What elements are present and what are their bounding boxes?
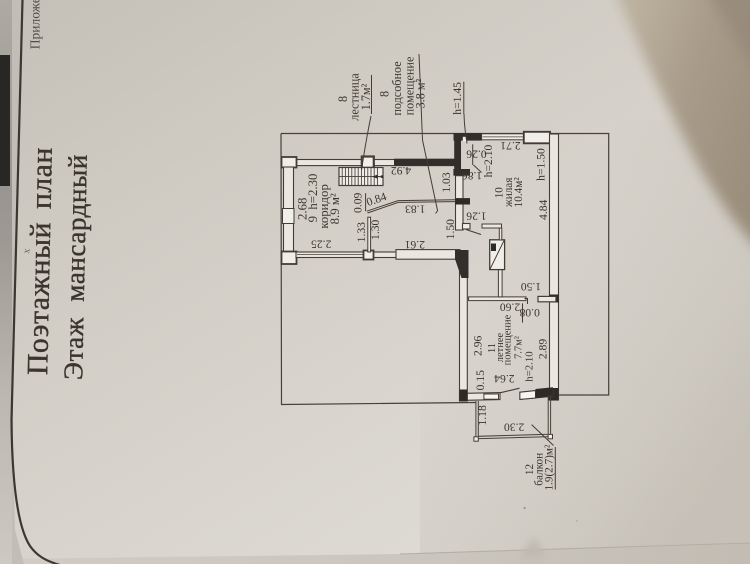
svg-text:1.30: 1.30 [369,219,382,239]
svg-text:2.25: 2.25 [311,237,331,250]
svg-text:8.9 м²: 8.9 м² [328,193,342,224]
svg-text:10.4м²: 10.4м² [513,177,525,208]
svg-text:1.50: 1.50 [444,219,457,239]
svg-text:1.26: 1.26 [466,210,486,223]
svg-text:2.96: 2.96 [471,335,484,355]
svg-text:2.60: 2.60 [500,300,520,313]
svg-text:1.50: 1.50 [521,280,541,293]
svg-text:2.64: 2.64 [494,372,514,385]
svg-text:h=1.45: h=1.45 [451,82,464,115]
svg-text:2.61: 2.61 [404,238,424,251]
svg-text:1.9(2.7)м²: 1.9(2.7)м² [544,444,556,490]
svg-text:1.83: 1.83 [405,203,425,216]
svg-text:0.26: 0.26 [466,148,486,161]
svg-text:2.71: 2.71 [500,139,520,152]
svg-text:0.15: 0.15 [474,370,487,390]
svg-text:0.09: 0.09 [352,192,365,212]
svg-text:Поэтажный план: Поэтажный план [22,147,59,376]
svg-text:h=2.10: h=2.10 [523,351,535,381]
svg-text:4.92: 4.92 [391,164,411,177]
svg-text:Приложение: Приложение [28,0,43,49]
svg-text:2.30: 2.30 [504,421,524,434]
svg-text:1.7м²: 1.7м² [359,83,373,110]
svg-text:Этаж мансардный: Этаж мансардный [58,154,93,380]
svg-text:1.33: 1.33 [355,222,368,242]
svg-text:3.8 м²: 3.8 м² [413,78,427,108]
svg-text:2.89: 2.89 [536,339,549,359]
svg-text:1.18: 1.18 [476,405,489,425]
svg-text:1.86: 1.86 [462,169,482,182]
svg-text:4.84: 4.84 [537,199,550,219]
svg-text:0.08: 0.08 [519,306,539,319]
svg-text:h=1.50: h=1.50 [535,148,548,181]
svg-text:помещение: помещение [502,314,513,365]
svg-text:1.03: 1.03 [440,172,453,192]
